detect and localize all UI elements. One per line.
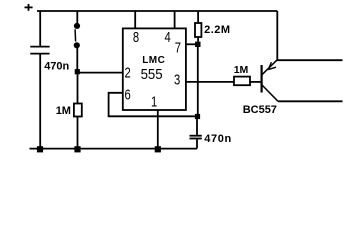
U1 pin 3 label xyxy=(174,71,180,88)
switch S1 contact dot top xyxy=(74,23,80,29)
wire pin 6 loop xyxy=(109,93,195,117)
U1 pin 8 label xyxy=(133,29,139,46)
wire bottom rail xyxy=(30,148,198,150)
node plus terminal xyxy=(25,4,33,11)
transistor Q1 label BC557 xyxy=(243,104,277,116)
U1 pin 6 label xyxy=(125,86,131,103)
transistor Q1 emitter xyxy=(262,60,277,74)
node D junction C1 ground xyxy=(37,146,43,152)
svg-text:1: 1 xyxy=(151,93,157,110)
svg-text:555: 555 xyxy=(141,65,163,82)
resistor R1 1M body xyxy=(74,104,82,117)
U1 pin 1 label xyxy=(151,93,157,110)
wire emitter supply from rail xyxy=(276,11,278,60)
svg-text:470n: 470n xyxy=(204,133,231,145)
wire switch to node A xyxy=(76,48,78,72)
U1 label LMC xyxy=(142,55,165,66)
capacitor C2 value 470n xyxy=(204,133,231,145)
switch S1 lever xyxy=(74,29,77,41)
resistor R1 value 1M xyxy=(56,105,71,117)
wire node A down to R1 xyxy=(77,73,79,104)
svg-text:7: 7 xyxy=(175,39,181,56)
wire pin 7 to node B xyxy=(186,43,198,45)
U1 label 555 xyxy=(141,65,163,82)
resistor R2 value 2.2M xyxy=(204,24,230,36)
capacitor C1 470n plates xyxy=(30,46,49,48)
capacitor C1 value 470n xyxy=(44,61,69,73)
node C junction xyxy=(195,114,200,119)
transistor Q1 collector xyxy=(262,85,278,101)
transistor Q1 emitter arrow xyxy=(268,62,276,70)
wire node B down to node C xyxy=(197,47,199,114)
node A junction pin2 branch xyxy=(75,69,80,74)
node E junction R1 ground xyxy=(74,146,80,152)
svg-text:2.2M: 2.2M xyxy=(204,24,230,36)
node F junction pin1 ground xyxy=(155,146,161,152)
svg-text:470n: 470n xyxy=(44,61,69,73)
transistor Q1 base bar xyxy=(261,65,263,93)
svg-text:4: 4 xyxy=(165,28,171,45)
svg-text:1M: 1M xyxy=(56,105,71,117)
resistor R3 1M body xyxy=(234,77,250,86)
svg-text:1M: 1M xyxy=(234,64,249,76)
capacitor C1 470n lead bottom xyxy=(39,54,41,149)
wire collector terminal xyxy=(278,100,343,102)
capacitor C2 470n plates xyxy=(190,135,202,137)
wire R3 to base xyxy=(250,81,261,83)
wire R1 to bottom rail xyxy=(77,117,79,150)
U1 pin 7 label xyxy=(175,39,181,56)
svg-text:LMC: LMC xyxy=(142,55,165,66)
wire pin 3 to R3 xyxy=(186,81,234,83)
op-amp U1 IC box LMC555 xyxy=(123,28,186,110)
resistor R2 2.2M lead from rail xyxy=(197,11,199,23)
svg-text:3: 3 xyxy=(174,71,180,88)
svg-text:6: 6 xyxy=(125,86,131,103)
wire top rail xyxy=(37,10,277,12)
wire pin 4 to rail xyxy=(174,11,176,28)
U1 pin 4 label xyxy=(165,28,171,45)
capacitor C1 470n lead top xyxy=(39,11,41,46)
resistor R2 2.2M body xyxy=(195,23,201,37)
capacitor C2 470n lead top xyxy=(196,118,198,135)
switch S1 contact dot bottom xyxy=(74,42,80,48)
svg-text:8: 8 xyxy=(133,29,139,46)
resistor R2 lead to node B xyxy=(197,37,199,42)
svg-text:2: 2 xyxy=(125,64,131,81)
wire emitter terminal xyxy=(277,59,343,61)
wire pin2 from node A to IC xyxy=(77,72,123,74)
capacitor C2 lead to rail xyxy=(196,139,198,148)
U1 pin 2 label xyxy=(125,64,131,81)
node B junction pin7 xyxy=(195,42,200,47)
resistor R3 value 1M xyxy=(234,64,249,76)
wire pin 8 to rail xyxy=(134,11,136,28)
wire pin 1 to bottom rail xyxy=(157,110,159,149)
switch S1 lead from rail xyxy=(76,11,78,24)
svg-text:BC557: BC557 xyxy=(243,104,277,116)
